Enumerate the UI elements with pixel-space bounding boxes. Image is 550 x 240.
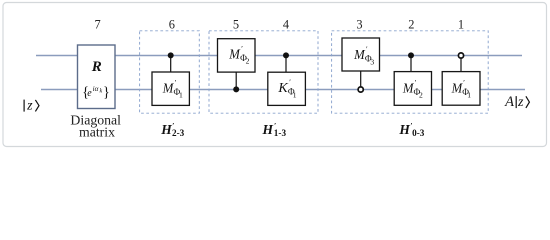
gate M'phi2 (col 5, top wire) [218,39,256,72]
dashed group box H'2-3 [140,31,200,113]
column number 3 [356,18,362,32]
svg-text:}: } [103,84,110,100]
gate M'phi1 (col 1, bottom wire) [442,72,480,106]
svg-text:1-3: 1-3 [274,128,287,138]
svg-text:A: A [504,94,514,110]
column 5: control dot on bottom wire [233,86,239,92]
svg-text:1: 1 [467,91,471,100]
label H'2-3 [160,121,184,138]
svg-text:e: e [87,88,92,99]
svg-text:6: 6 [169,18,175,32]
gate M'phi3 (col 3, top wire) [342,38,380,71]
svg-text:′: ′ [175,78,177,87]
svg-text:2: 2 [246,57,250,66]
column number 2 [408,18,414,32]
svg-text:3: 3 [370,57,374,66]
column 6: vertical connector wire [170,55,172,72]
svg-text:z: z [517,95,524,110]
svg-text:H: H [160,122,172,137]
label H'1-3 [262,121,287,138]
gate R diagonal matrix box [78,45,116,109]
svg-text:0-3: 0-3 [412,128,425,138]
gate K'phi1 (col 4, bottom wire) [268,72,306,105]
svg-text:′: ′ [289,78,291,87]
svg-text:z: z [26,99,33,114]
label H'0-3 [398,121,424,138]
figure border frame [3,3,547,147]
column 4: vertical connector wire [285,55,287,72]
svg-text:1: 1 [293,90,297,99]
label Diagonal matrix [70,113,121,140]
svg-text:1: 1 [458,18,464,32]
column number 4 [283,18,289,32]
column number 6 [169,18,175,32]
svg-text:iα: iα [93,85,99,93]
svg-text:3: 3 [356,18,362,32]
svg-text:2: 2 [419,91,423,100]
svg-text:2: 2 [408,18,414,32]
dashed group box H'0-3 [332,31,489,113]
svg-text:′: ′ [366,44,368,53]
svg-text:H: H [262,122,274,137]
column 3: vertical connector wire [360,71,362,86]
column 3: open (anti)control circle on bottom wire [358,87,363,92]
gate M'phi2 (col 2, bottom wire) [394,72,431,106]
svg-text:2-3: 2-3 [172,128,185,138]
column 6: control dot on top wire [168,52,174,58]
svg-text:matrix: matrix [79,125,115,140]
gate M'phi1 (col 6, bottom wire) [152,72,189,105]
dashed group box H'1-3 [209,31,318,113]
svg-text:7: 7 [94,18,100,32]
svg-text:R: R [91,59,102,75]
column 2: control dot on top wire [408,52,414,58]
column number 7 [94,18,100,32]
column 2: vertical connector wire [410,55,412,71]
svg-text:′: ′ [241,44,243,53]
svg-text:4: 4 [283,18,289,32]
column 1: vertical connector wire [460,58,462,71]
column 4: control dot on top wire [283,52,289,58]
svg-text:H: H [398,122,410,137]
column number 5 [233,18,239,32]
svg-text:K: K [277,81,288,96]
column 5: vertical connector wire [235,72,237,89]
wire bottom qubit line [41,89,525,91]
svg-text:5: 5 [233,18,239,32]
column 1: open (anti)control circle on top wire [458,53,463,58]
column number 1 [458,18,464,32]
node input ket |z> [24,99,39,114]
svg-text:′: ′ [463,78,465,87]
node output ket A|z> [504,94,529,110]
svg-text:1: 1 [179,91,183,100]
svg-text:′: ′ [415,78,417,87]
wire top qubit line [36,55,522,57]
